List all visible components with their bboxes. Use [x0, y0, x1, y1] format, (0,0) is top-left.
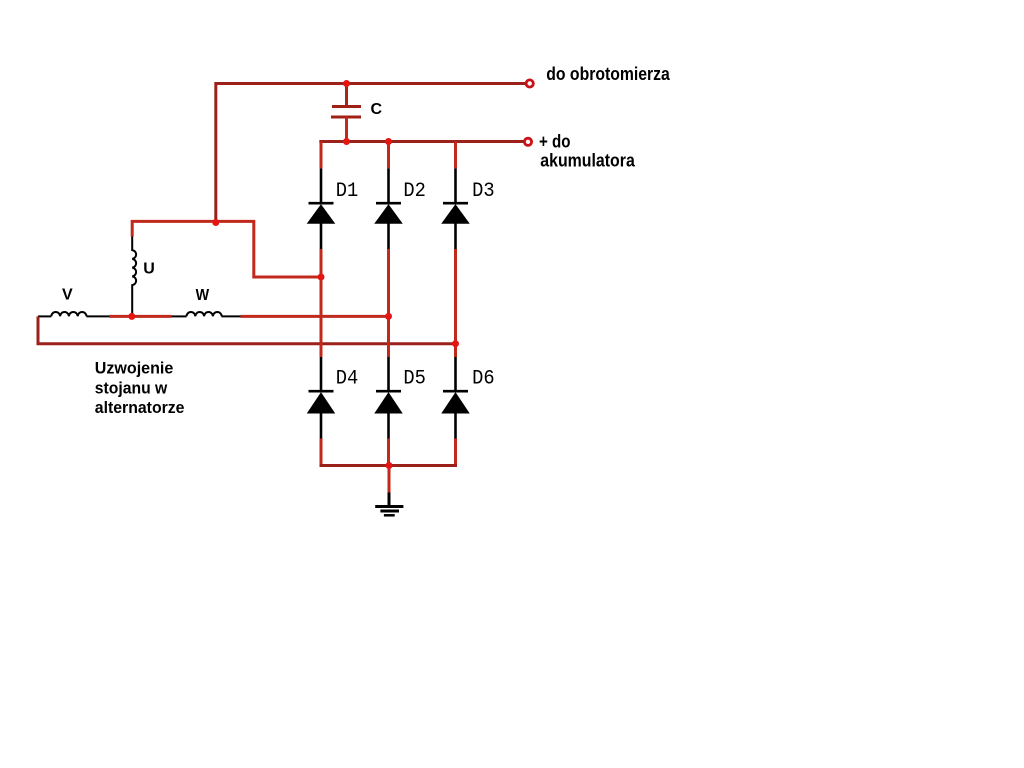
wire: D3 column red segments: [454, 142, 457, 358]
wire: D6 to bottom rail: [454, 439, 457, 466]
svg-text:alternatorze: alternatorze: [95, 398, 185, 417]
diode D1: [308, 168, 335, 249]
capacitor C (bottom stub): [345, 117, 348, 142]
diode D2: [375, 168, 402, 249]
svg-text:D2: D2: [403, 180, 426, 203]
wire: black lead to W: [171, 315, 186, 317]
svg-text:akumulatora: akumulatora: [540, 151, 635, 171]
node: U winding bottom / stator row: [128, 313, 135, 320]
node: bottom rail / ground: [386, 462, 393, 469]
capacitor C (bottom plate): [331, 116, 361, 119]
node: tachometer wire / capacitor top: [343, 80, 350, 87]
svg-text:V: V: [62, 286, 73, 303]
wire: + rail to battery: [321, 142, 524, 144]
wire: ground stub: [388, 466, 391, 493]
inductor V (winding): [51, 312, 86, 316]
capacitor C (top plate): [332, 105, 361, 108]
wire: D1 column red segments: [320, 142, 323, 358]
svg-text:+ do: + do: [539, 131, 571, 151]
node: V loop / D3 column: [452, 340, 459, 347]
svg-text:stojanu w: stojanu w: [95, 379, 168, 398]
svg-text:D6: D6: [472, 367, 495, 390]
svg-text:U: U: [143, 261, 155, 278]
diode D5: [375, 357, 402, 439]
wire: bottom rail (D4-D6 anodes common): [320, 464, 458, 467]
label: Uzwojenie stojanu w alternatorze: [95, 358, 185, 417]
wire: tachometer feed (vertical from main junction up, then right along top): [216, 84, 526, 223]
node: main junction (U phase / tach feed): [212, 219, 219, 226]
wire: red segment through U-node: [109, 315, 171, 318]
svg-text:D5: D5: [403, 367, 426, 390]
wire: D2 column red segments: [387, 142, 390, 358]
terminal: + do akumulatora (open circle): [524, 138, 531, 145]
diode D3: [442, 168, 469, 249]
svg-text:D3: D3: [472, 180, 495, 203]
node: W phase / D2 column: [385, 313, 392, 320]
wire: left end of stator row (black lead left of V): [38, 315, 51, 317]
wire: black lead right of W: [222, 315, 241, 317]
svg-text:D4: D4: [336, 367, 359, 390]
diode D6: [442, 357, 469, 439]
diode D4: [308, 357, 335, 439]
ground: [375, 493, 403, 516]
wire: V phase loop (down left side and along bottom to D3/D6 column): [38, 316, 456, 343]
svg-text:W: W: [196, 287, 210, 304]
wire: D5 to bottom rail: [387, 439, 390, 466]
svg-text:do obrotomierza: do obrotomierza: [546, 64, 670, 84]
svg-text:Uzwojenie: Uzwojenie: [95, 358, 174, 377]
wire: black lead V to node: [87, 315, 110, 317]
svg-text:C: C: [371, 101, 383, 118]
wire: stator U phase to rectifier (junction arms + step down to D1 anode row): [132, 221, 321, 277]
node: U step wire / D1 column: [318, 274, 325, 281]
capacitor C (top stub): [345, 84, 348, 107]
svg-text:D1: D1: [336, 180, 359, 203]
inductor W (winding): [187, 312, 222, 316]
inductor U (winding): [132, 237, 136, 317]
node: capacitor bottom / + rail: [343, 138, 350, 145]
wire: W phase to D2/D5 column: [241, 315, 389, 318]
terminal: do obrotomierza (open circle): [526, 80, 533, 87]
wire: D4 to bottom rail: [320, 439, 323, 466]
node: D2 column / + rail: [385, 138, 392, 145]
